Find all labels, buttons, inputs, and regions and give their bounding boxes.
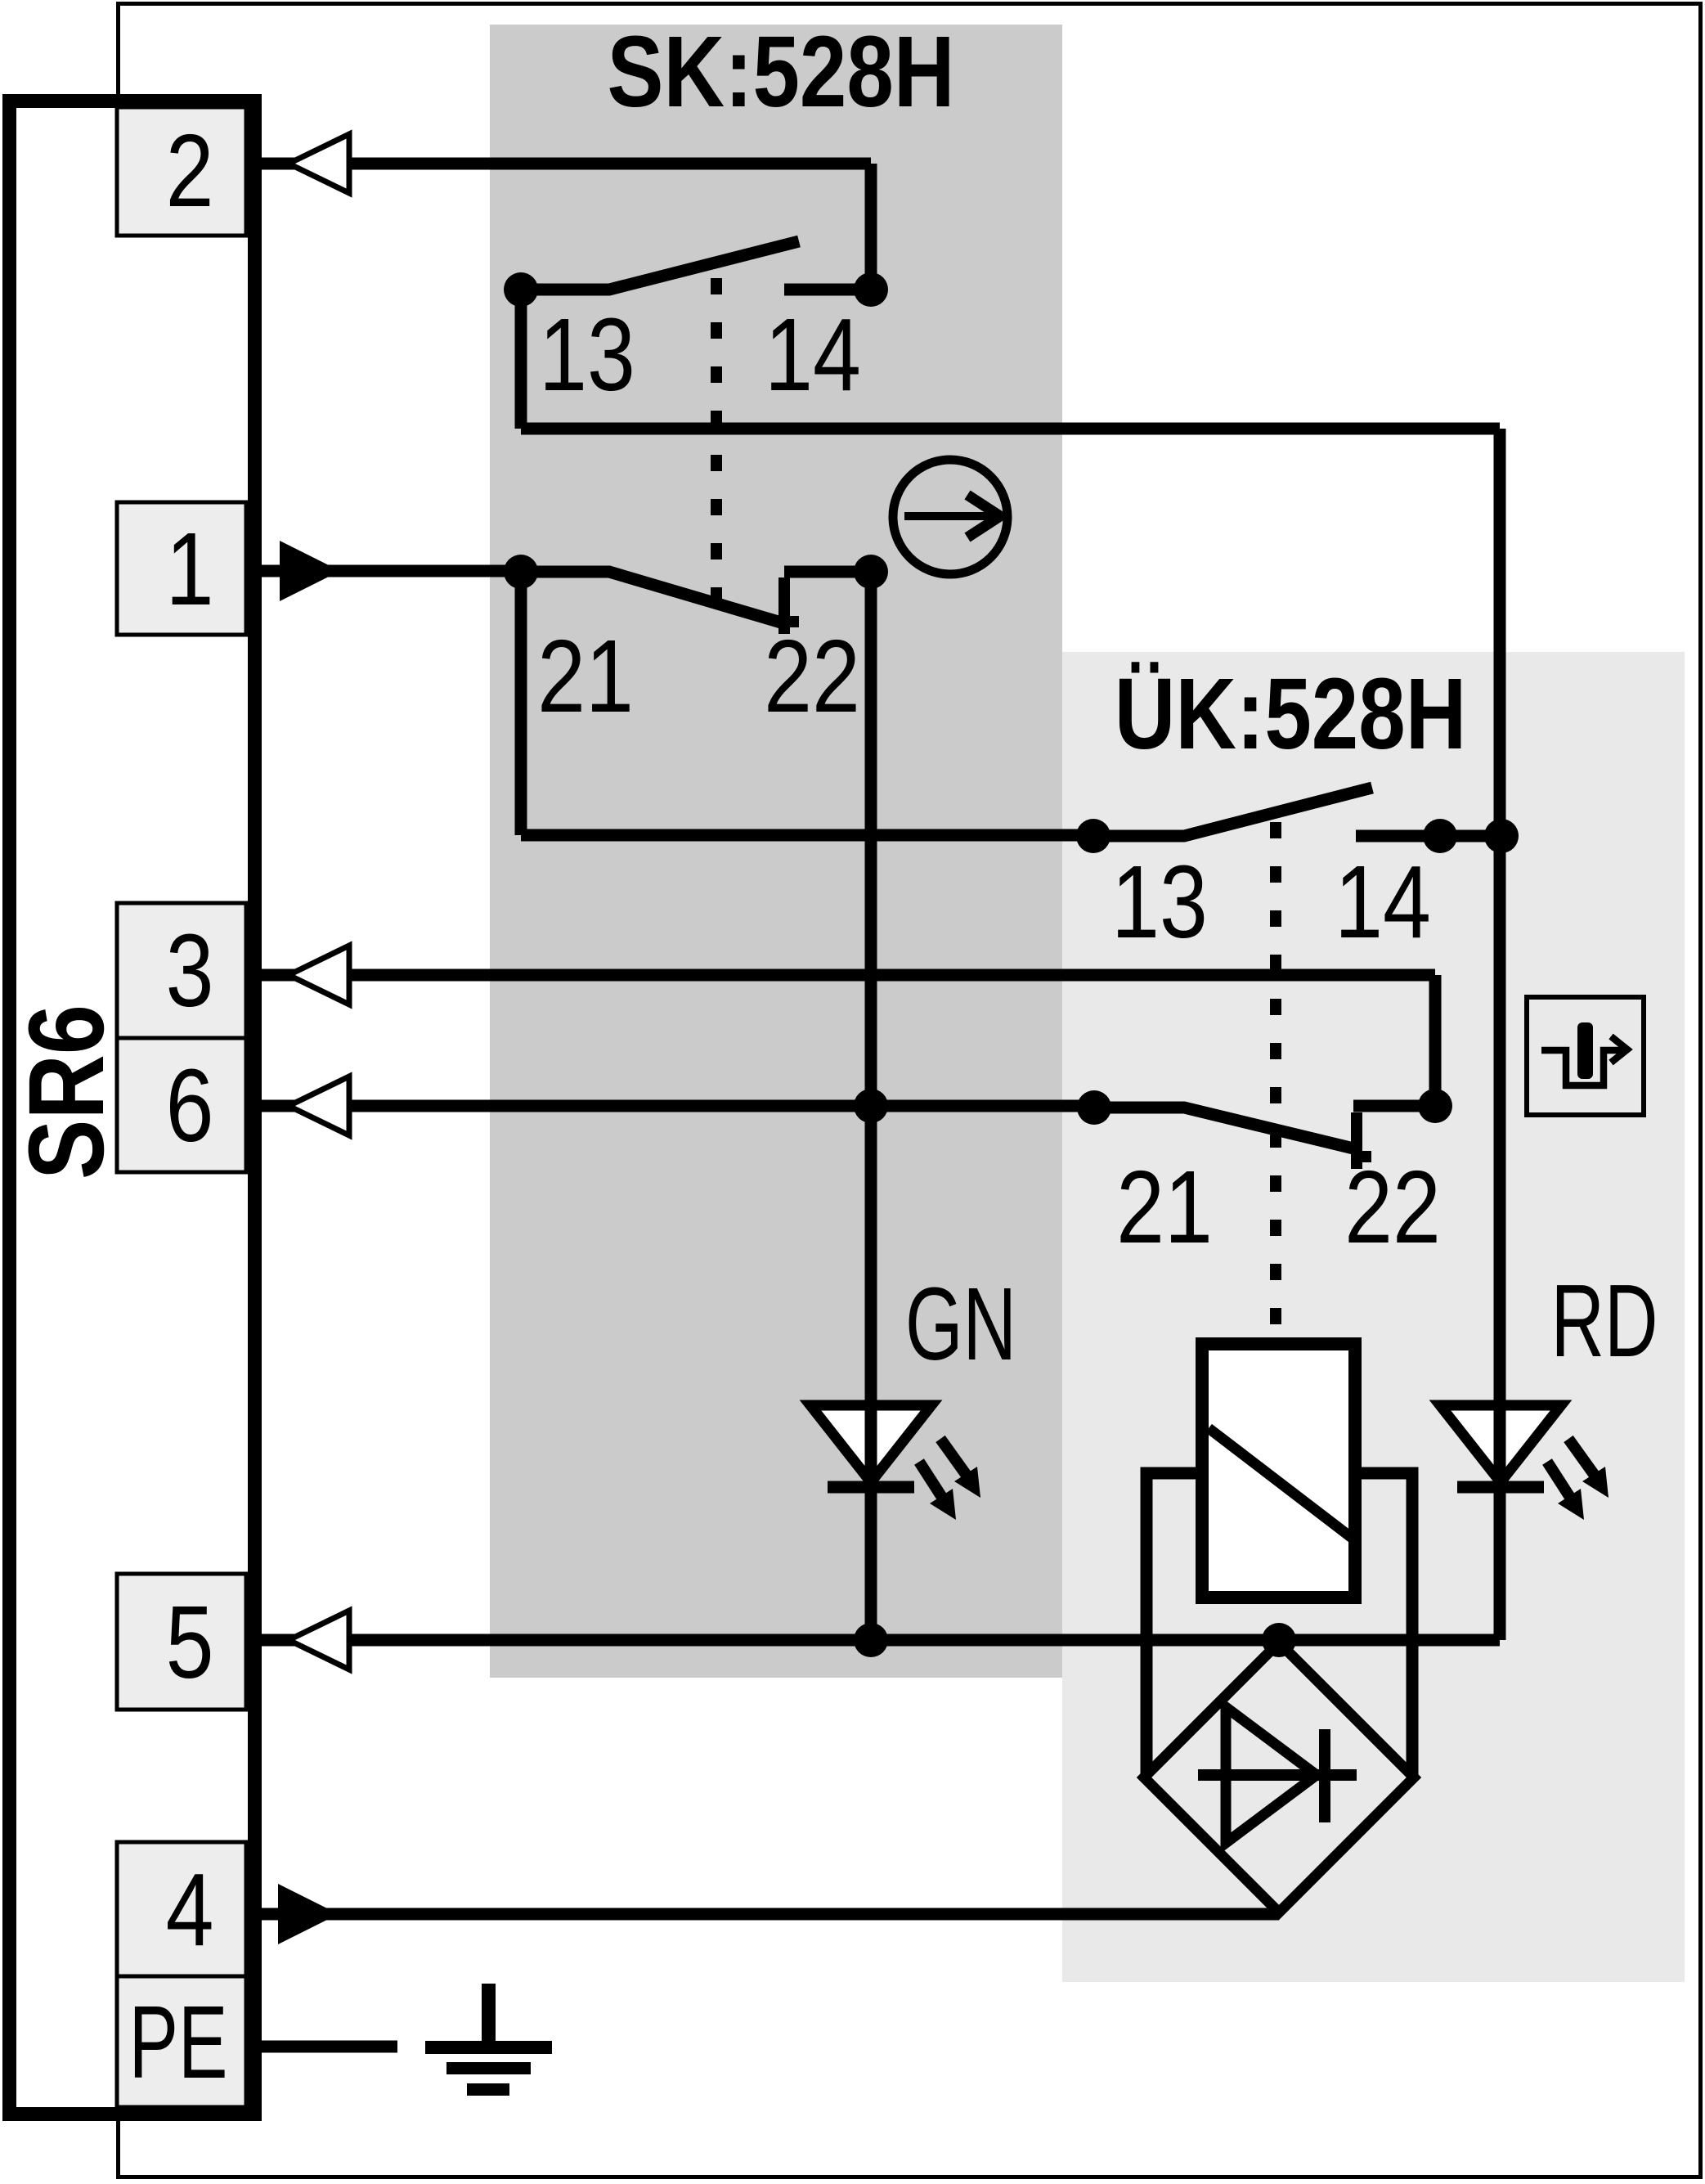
svg-text:14: 14 <box>765 297 861 412</box>
svg-text:GN: GN <box>905 1268 1016 1382</box>
svg-text:13: 13 <box>1111 844 1208 959</box>
svg-text:5: 5 <box>166 1584 214 1700</box>
svg-text:21: 21 <box>537 618 634 734</box>
svg-text:1: 1 <box>166 511 214 627</box>
svg-text:SR6: SR6 <box>6 1004 126 1180</box>
svg-text:4: 4 <box>166 1852 214 1967</box>
svg-text:SK:528H: SK:528H <box>608 16 955 129</box>
svg-text:13: 13 <box>539 297 635 412</box>
svg-text:14: 14 <box>1335 844 1431 959</box>
svg-text:3: 3 <box>166 913 214 1028</box>
svg-text:22: 22 <box>1344 1149 1441 1265</box>
svg-text:21: 21 <box>1116 1149 1213 1265</box>
svg-text:6: 6 <box>166 1048 214 1163</box>
svg-text:PE: PE <box>128 1986 227 2101</box>
svg-text:2: 2 <box>166 113 214 228</box>
svg-text:RD: RD <box>1550 1265 1658 1379</box>
svg-text:22: 22 <box>764 618 860 734</box>
svg-text:ÜK:528H: ÜK:528H <box>1115 658 1467 771</box>
